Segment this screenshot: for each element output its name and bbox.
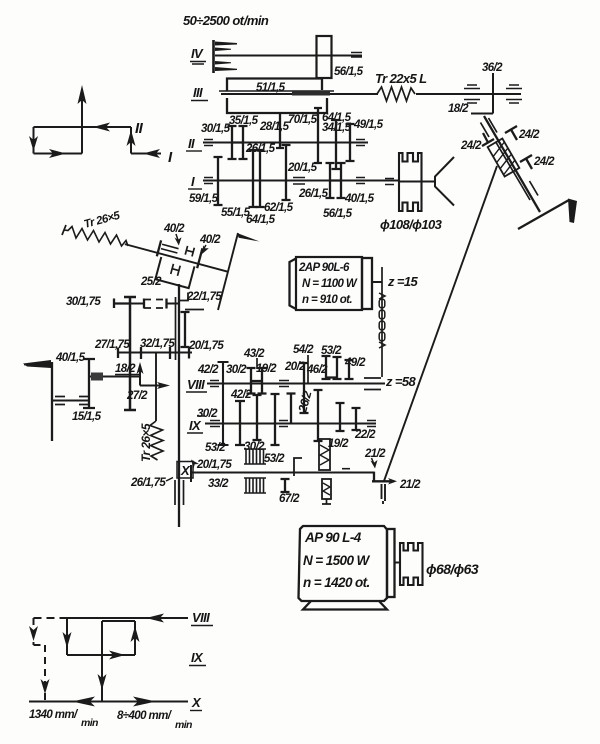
gear pair 53-46 right: [326, 357, 342, 379]
cluster gear face dashes: [161, 244, 179, 253]
flow arrowhead up right: [127, 130, 136, 146]
svg-text:II: II: [188, 136, 195, 151]
svg-text:36/2: 36/2: [482, 62, 503, 74]
flow arrowhead left on II line: [93, 123, 110, 132]
gear 56/1.5 tall block on shaft IV: [317, 36, 332, 78]
gear 70/1.5 hanging from sleeve: [314, 108, 322, 163]
gear 30/2 vertical on IX: [253, 395, 262, 440]
shaft IV right end bearing dashes: [351, 53, 362, 58]
bracket to 22/1.75: [179, 293, 188, 301]
gear 64/1.5 vertical pair: [256, 150, 265, 207]
belt fork symbol: [435, 157, 454, 206]
gear 28/1.5 hanging from sleeve: [276, 113, 284, 148]
lever flag: [237, 233, 260, 242]
gear 25/2 bracket below shaft: [155, 257, 194, 288]
feed shaft spline dashes upper: [481, 118, 498, 137]
flow arrowhead right on X: [133, 697, 156, 707]
bearing dash on X near end: [342, 468, 350, 470]
selector fork upper: [185, 246, 194, 257]
gear 62/20 vertical: [282, 145, 291, 200]
svg-text:n = 910 ot.: n = 910 ot.: [302, 294, 352, 306]
gear pair 35-26 left vertical: [228, 126, 237, 159]
gear 49/2 vertical: [345, 360, 354, 379]
pinion arrow up: [139, 367, 141, 386]
pulley shaft bearing dashes left of pulley: [385, 179, 394, 185]
flow arrowhead right bottom: [49, 149, 66, 158]
shaft X line: [191, 465, 374, 482]
flow arrowhead down solid: [63, 632, 72, 648]
motor chain vertical line: [381, 267, 383, 377]
svg-text:59/1,5: 59/1,5: [189, 193, 219, 205]
flow arrowhead down left loop: [29, 136, 38, 151]
rail left end cap: [117, 348, 119, 359]
flow solid vertical from VIII: [66, 618, 68, 655]
gear vertical x291 on IX: [287, 394, 296, 425]
rail crossing tick right: [169, 347, 171, 359]
flow main horizontal II line: [34, 126, 132, 128]
svg-text:33/2: 33/2: [208, 478, 229, 490]
svg-text:z =58: z =58: [385, 374, 417, 389]
spring symbol Tr 26x5 inclined: [64, 227, 128, 247]
flow arrowhead left on X: [72, 697, 95, 707]
svg-text:8÷400 mm/: 8÷400 mm/: [117, 710, 173, 722]
shaft III line: [221, 93, 521, 95]
gear 30/1.75 end cap: [114, 299, 130, 309]
ratchet box upper: [319, 439, 330, 470]
gear 55/1.5 vertical: [249, 150, 258, 207]
elbow from 18/2 to vertical: [471, 113, 493, 115]
svg-text:62/1,5: 62/1,5: [264, 202, 294, 214]
gear vertical x275 on IX: [271, 394, 280, 445]
svg-text:VIII: VIII: [192, 610, 210, 625]
flow VIII line dashed left: [34, 617, 68, 619]
vertical stub from 36/2 to cross: [492, 73, 494, 114]
link to dashed clutch: [130, 303, 144, 305]
cluster left gear tick: [157, 240, 161, 256]
svg-text:18/2: 18/2: [448, 103, 469, 115]
gear vertical x340 on IX: [336, 403, 345, 431]
svg-text:21/2: 21/2: [399, 479, 421, 491]
flow arrowhead right IX level: [109, 651, 125, 660]
svg-text:2AP 90L-6: 2AP 90L-6: [298, 262, 350, 274]
motor AP base: [303, 601, 387, 610]
chain links: [379, 293, 385, 348]
svg-text:24/2: 24/2: [518, 129, 540, 141]
shaft IV line: [215, 55, 362, 57]
shaft IX left bearing dashes: [210, 421, 220, 427]
spring symbol Tr 22x5 on shaft III: [377, 87, 415, 101]
arrow to 20/1.75: [191, 460, 199, 469]
svg-text:20/1,75: 20/1,75: [188, 340, 224, 352]
motor 2AP left facet: [290, 259, 297, 310]
feed shaft spline dashes lower: [522, 181, 539, 200]
motor 2AP right flange: [362, 258, 372, 309]
clutch hatched bar on shaft III: [292, 91, 330, 96]
svg-text:54/2: 54/2: [293, 344, 314, 356]
bracket 20/1.75 step: [185, 309, 204, 311]
worm hatched block on feed shaft: [488, 139, 520, 177]
inclined shaft cluster rotated group: [118, 229, 231, 297]
bevel gear tee 24/2 lower right: [520, 155, 532, 169]
svg-text:40/1,5: 40/1,5: [344, 193, 375, 205]
gear pair 30-19 right with hub: [251, 368, 267, 394]
svg-text:26/1,75: 26/1,75: [130, 477, 166, 489]
steep lever line: [218, 233, 238, 310]
svg-text:15/1,5: 15/1,5: [72, 411, 102, 423]
shaft VIII mid bearing dashes: [279, 381, 289, 387]
ratchet stem bottom: [322, 499, 331, 504]
svg-text:26/1,5: 26/1,5: [298, 188, 329, 200]
flow loop box right up-arrow: [134, 621, 136, 655]
long belt diagonal to apron: [384, 166, 497, 481]
flow X line: [29, 701, 188, 703]
spindle sleeve upper bracket: [227, 79, 322, 92]
pulley d68/d63: [400, 543, 423, 585]
bevel gear tee 24/2 upper right: [505, 126, 517, 140]
svg-text:N = 1500 W: N = 1500 W: [303, 553, 371, 568]
flow arrowhead down center: [98, 674, 107, 690]
svg-text:67/2: 67/2: [279, 493, 300, 505]
svg-text:30/2: 30/2: [244, 441, 265, 453]
belt pulley d108/d103: [399, 153, 422, 211]
left vertical shaft of gearbox: [124, 297, 136, 410]
svg-text:30/2: 30/2: [197, 408, 218, 420]
flow center vertical to X: [101, 655, 103, 702]
crank handle blade: [568, 199, 577, 224]
motor AP right flange: [387, 529, 395, 597]
svg-text:53/2: 53/2: [205, 442, 226, 454]
svg-text:21/2: 21/2: [364, 448, 386, 460]
svg-text:IV: IV: [191, 46, 204, 61]
svg-text:40/2: 40/2: [199, 234, 221, 246]
shaft I middle bearing dashes: [293, 178, 305, 185]
svg-text:VIII: VIII: [187, 377, 205, 392]
shaft X right end step: [372, 472, 394, 482]
handwheel vertical shaft: [51, 362, 53, 441]
inclined shaft line: [125, 244, 227, 271]
shaft II line: [203, 142, 368, 144]
svg-text:64/1,5: 64/1,5: [246, 214, 276, 226]
shaft I line: [203, 180, 399, 182]
motor 2AP 90L-6 body: [296, 257, 362, 310]
worm block hatched on apron shaft: [91, 373, 103, 381]
motor 2AP shaft stub: [372, 281, 382, 283]
spline block lower on X: [244, 478, 266, 493]
rail crossing tick left: [140, 347, 142, 359]
svg-text:min: min: [175, 719, 192, 731]
svg-text:Tr 22x5 L: Tr 22x5 L: [375, 71, 427, 86]
leader 26/1.75: [166, 478, 173, 482]
shaft I through pulley: [399, 181, 435, 183]
svg-text:70/1,5: 70/1,5: [288, 114, 318, 126]
svg-text:IX: IX: [189, 418, 202, 433]
flow arrowhead up: [78, 85, 87, 104]
svg-text:19/2: 19/2: [328, 438, 349, 450]
cluster right gear tick: [197, 248, 202, 268]
gear 64/34 vertical on shaft II: [332, 120, 341, 169]
vertical feed shaft from cluster: [178, 284, 180, 527]
apron shaft horizontal: [89, 376, 140, 378]
flow VIII line solid: [67, 617, 188, 619]
svg-text:27/1,75: 27/1,75: [94, 339, 130, 351]
flow right vertical up-arrow: [130, 127, 132, 154]
svg-text:56/1,5: 56/1,5: [334, 66, 364, 78]
svg-text:ϕ68/ϕ63: ϕ68/ϕ63: [426, 561, 479, 577]
svg-text:30/1,5: 30/1,5: [201, 123, 231, 135]
rack arrow right: [140, 385, 163, 387]
svg-text:20/1,5: 20/1,5: [287, 162, 318, 174]
svg-text:III: III: [193, 85, 203, 100]
gear 49/1.5 vertical on shaft II: [346, 124, 355, 161]
spring symbol vertical screw: [150, 421, 163, 460]
gear 59/1.5 vertical: [214, 157, 223, 205]
flow bottom horizontal IX level: [67, 654, 135, 656]
motor AP shaft stub: [394, 562, 400, 564]
vertical screw shaft: [155, 353, 157, 422]
svg-text:56/1,5: 56/1,5: [323, 208, 353, 220]
svg-text:30/2: 30/2: [226, 364, 247, 376]
shaft IX line: [205, 423, 376, 425]
shaft VIII left bearing dashes: [210, 381, 219, 387]
bevel gear tee 24/2 left: [482, 133, 494, 146]
bearing dashes left of cross: [464, 85, 480, 103]
svg-text:42/2: 42/2: [197, 364, 219, 376]
upper leadscrew end cap: [62, 225, 66, 235]
flow bottom horizontal: [34, 153, 83, 155]
gear pair 53-46 left above VIII: [322, 356, 331, 379]
svg-text:24/2: 24/2: [460, 140, 482, 152]
svg-text:z =15: z =15: [387, 274, 419, 289]
inclined feed shaft upper section: [484, 116, 540, 212]
flow arrowhead left on VIII: [146, 614, 164, 623]
svg-text:24/2: 24/2: [533, 156, 555, 168]
svg-text:28/1,5: 28/1,5: [259, 121, 290, 133]
svg-text:50÷2500 ot /min: 50÷2500 ot /min: [183, 13, 269, 28]
svg-text:22/1,75: 22/1,75: [186, 291, 222, 303]
gear 22/2 vertical: [352, 408, 361, 430]
sprocket z58 dashes on shaft VIII: [364, 378, 381, 390]
shaft II right bearing dashes: [356, 140, 365, 146]
svg-text:42/2: 42/2: [230, 389, 252, 401]
stem 43/2: [256, 358, 258, 369]
end arrow right on step: [388, 478, 397, 485]
shaft IX mid bearing dashes: [279, 421, 288, 427]
vertical feed shaft parallel upper: [175, 297, 177, 360]
shaft II left bearing dashes: [204, 140, 213, 146]
stem 54/2: [307, 355, 309, 383]
spindle sleeve lower bracket: [227, 98, 327, 113]
handwheel blade: [23, 360, 51, 368]
gear pair 35-26 right vertical with hub: [232, 126, 248, 159]
selector fork lower: [171, 264, 180, 276]
vertical feed shaft nut double lower: [175, 480, 184, 505]
flow loop box left: [101, 621, 103, 655]
svg-text:53/2: 53/2: [264, 453, 285, 465]
svg-text:40/1,5: 40/1,5: [55, 352, 86, 364]
spline block upper on X: [244, 449, 266, 464]
shaft VIII line: [207, 383, 385, 385]
bearing dashes lower apron right: [79, 397, 89, 405]
gear pair 30-19 left: [247, 368, 256, 394]
flow I entry horizontal: [131, 153, 161, 155]
svg-text:20/1,75: 20/1,75: [196, 459, 232, 471]
shaft I left bearing dashes: [204, 178, 213, 184]
svg-text:49/1,5: 49/1,5: [353, 119, 384, 131]
shaft IX right bearing dashes: [367, 421, 376, 427]
svg-text:IX: IX: [191, 650, 204, 665]
svg-text:51/1,5: 51/1,5: [256, 82, 286, 94]
svg-text:N = 1100 W: N = 1100 W: [302, 278, 358, 290]
handwheel handle line: [24, 364, 52, 366]
shaft I right bearing dashes: [356, 178, 365, 184]
flow diagram upper: vertical branch up-arrow: [81, 100, 83, 154]
svg-text:25/2: 25/2: [140, 276, 162, 288]
flow arrowhead down dashed upper: [29, 626, 38, 641]
svg-text:18/2: 18/2: [115, 363, 136, 375]
flow dashed vertical left: [34, 618, 46, 701]
svg-text:n = 1420 ot.: n = 1420 ot.: [303, 575, 370, 590]
feed shaft parallel sleeve line: [496, 142, 522, 186]
bearing dashes lower apron left: [55, 397, 65, 405]
gear pair 26-56 right vertical with hub: [330, 163, 346, 198]
bracket step on X: [294, 458, 302, 476]
gear 67/2 vertical: [281, 479, 290, 492]
flow loop box top: [102, 620, 135, 622]
flow arrowhead left I entry: [143, 149, 160, 158]
bearing dashes right of cross: [506, 85, 522, 103]
shaft III sleeve upper line: [219, 90, 334, 92]
crank handle upper right: [518, 200, 569, 229]
svg-text:27/2: 27/2: [126, 390, 148, 402]
gear 26/2 tall vertical: [314, 390, 323, 441]
svg-text:ϕ108/ϕ103: ϕ108/ϕ103: [380, 217, 443, 232]
svg-text:30/1,75: 30/1,75: [66, 296, 101, 308]
flow arrowhead down dashed lower: [41, 679, 50, 694]
ratchet box lower: [322, 479, 331, 499]
gear 42/2 vertical on IX: [235, 401, 245, 445]
svg-text:1340 mm/: 1340 mm/: [29, 709, 79, 721]
spindle nose comb on shaft IV: [212, 40, 215, 73]
svg-text:43/2: 43/2: [243, 348, 265, 360]
end cap double bars: [382, 484, 386, 504]
gearbox horizontal rail: [118, 352, 192, 354]
rail right end cap: [188, 348, 190, 359]
flow left loop vertical: [33, 127, 35, 154]
lower apron shaft: [52, 400, 89, 402]
gear 20/1.75 vertical: [181, 312, 190, 347]
gear 20/46 vertical: [300, 363, 309, 413]
svg-text:AP 90 L-4: AP 90 L-4: [304, 530, 362, 545]
gear pair 26-56 left vertical: [326, 163, 335, 198]
motor AP 90 L-4 body: [299, 526, 388, 601]
svg-text:49/2: 49/2: [344, 357, 366, 369]
link clutch to feed shaft: [167, 303, 180, 305]
gear 40/1.5 vertical: [83, 359, 95, 408]
tall sliding gear 42-53: [218, 362, 229, 445]
dashed clutch coupling: [144, 299, 167, 309]
svg-text:40/2: 40/2: [163, 223, 185, 235]
svg-text:min: min: [81, 717, 98, 729]
